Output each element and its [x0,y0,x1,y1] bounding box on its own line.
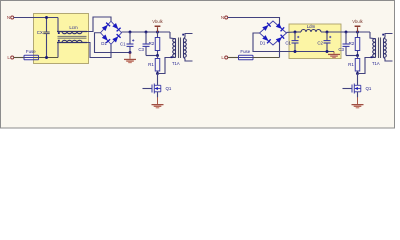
choke left polarity dot top [58,32,60,34]
power Vbulk left [157,27,159,32]
svg-text:L: L [221,55,224,60]
resistor R1 (right) [357,56,359,59]
svg-text:Fuse: Fuse [240,49,250,54]
svg-text:N: N [221,15,224,20]
capacitor C2 [326,32,328,41]
MOSFET Q1-left right lead [160,85,162,92]
wire N to filter [14,17,58,19]
wire bridge minus to filter bottom rail [253,33,334,52]
choke left core [58,35,87,37]
MOSFET Q1-right gate wire [343,88,352,90]
choke left polarity dot bottom [58,40,60,42]
diode D1-right upper-right [276,23,285,31]
wire choke to bridge AC2 [87,43,111,58]
diode D1-right upper-left [262,23,271,31]
svg-text:Lcm: Lcm [69,25,78,30]
wire Ldm to box edge [321,31,346,33]
svg-text:C3: C3 [138,47,144,52]
power Vbulk right [357,27,359,32]
ground GND-Q1-right [357,97,359,104]
wire C3 to node [146,55,158,57]
svg-text:R1: R1 [148,62,154,67]
fuse F1-right [239,57,254,59]
node drain (right) [356,72,359,75]
ground GND-filter-right [333,52,335,54]
svg-text:R2: R2 [349,41,355,46]
MOSFET Q1-right channel bar [353,84,355,94]
diode D1-right lower-right [276,35,285,43]
MOSFET Q1-left drain tap [154,84,161,86]
node C2 top [326,31,329,34]
transformer T1A-left primary winding [173,39,176,58]
wire L to fuse [14,57,24,59]
transformer T1A-right polarity dot secondary [382,34,384,36]
node C1 top (right) [294,31,297,34]
capacitor C3 (right) [345,32,347,44]
wire bridge plus to filter [287,31,296,33]
Vbulk rail (right) [346,31,370,33]
node snubber [156,54,159,57]
fuse F1-left [24,57,39,59]
wire source down [157,92,159,98]
wire choke to bridge AC1 [87,17,111,32]
transformer T1A-right primary winding [373,39,376,58]
node C1 top [129,31,132,34]
svg-text:N: N [7,15,10,20]
MOSFET Q1-left channel bar [153,84,155,94]
MOSFET Q1-left gate wire [143,88,152,90]
svg-text:T1A: T1A [372,61,380,66]
node C1 bottom [129,51,132,54]
capacitor C1 (right) [294,32,296,41]
MOSFET Q1-right source tap [354,91,361,93]
resistor R2 (right) [357,32,359,38]
transformer T1A-left secondary bottom pin wire [184,57,193,61]
MOSFET Q1-right drain tap [354,84,361,86]
svg-text:C1: C1 [285,40,291,45]
svg-text:R1: R1 [348,62,354,67]
wire node to transformer primary [158,58,176,74]
schematic sheet [0,0,400,146]
svg-text:Vbulk: Vbulk [352,19,363,24]
transformer T1A-right core [378,38,380,59]
capacitor CX [46,18,48,32]
node CX bottom [45,56,48,59]
MOSFET Q1-right right lead [360,85,362,92]
transformer T1A-left primary pin wire [170,32,176,39]
svg-text:Ldm: Ldm [307,24,316,29]
wire N to bridge [228,18,280,27]
svg-text:Q1: Q1 [166,86,172,91]
wire bridge minus to rail [95,33,131,53]
svg-text:T1A: T1A [172,61,180,66]
pi filter box (right) [289,24,341,59]
wire fuse to bridge AC2 [253,57,280,59]
resistor R2 [157,32,159,38]
svg-text:D1: D1 [260,41,266,46]
wire C3 to node (right) [346,55,358,57]
transformer T1A-right secondary top pin wire [384,34,393,39]
MOSFET Q1-right gate bar [351,85,353,93]
MOSFET Q1-left body arrow [155,88,161,90]
svg-text:L: L [7,55,10,60]
diode D1-left lower-right [112,34,120,43]
ground GND-C1-left [129,53,131,59]
svg-text:Q1: Q1 [366,86,372,91]
transformer T1A-right secondary bottom pin wire [384,57,393,61]
svg-text:CX: CX [37,30,43,35]
resistor R1 [157,56,159,59]
EMI filter box (left) [34,14,89,64]
choke left bottom winding [57,40,87,42]
node R2 top [156,31,159,34]
inductor Ldm [301,30,321,33]
MOSFET Q1-right body arrow [355,88,361,90]
node C3 top [145,31,148,34]
svg-text:Vbulk: Vbulk [152,19,163,24]
wire source down (right) [357,92,359,98]
svg-text:C2: C2 [317,40,323,45]
transformer T1A-right secondary winding [384,39,387,58]
node C1 bottom (right) [294,50,297,53]
diode D1-left lower-left [102,34,110,43]
transformer T1A-right polarity dot primary [371,56,373,58]
common-mode choke Lcm (left) top winding [57,32,87,34]
wire bridge plus / Vbulk rail [122,31,171,33]
node C3 top (right) [345,31,348,34]
node CX top [45,16,48,19]
ground GND-Q1-left [157,97,159,104]
svg-text:C3: C3 [338,47,344,52]
node R2 top (right) [356,31,359,34]
wire node to MOSFET drain [157,74,159,86]
bridge rectifier D1-left [101,21,122,44]
svg-text:D1: D1 [101,41,107,46]
svg-text:Fuse: Fuse [26,49,36,54]
wire down to choke top [57,18,59,32]
transformer T1A-left polarity dot primary [171,56,173,58]
wire fuse to choke [39,57,59,59]
bridge rectifier D1-right [260,21,287,45]
capacitor C3 [145,32,147,44]
MOSFET Q1-left gate bar [151,85,153,93]
svg-text:C1: C1 [120,42,126,47]
node drain [156,72,159,75]
wire L to fuse [228,57,239,59]
node C2 bottom [326,50,329,53]
diode D1-right lower-left [262,35,271,43]
diode D1-left upper-right [112,23,120,32]
svg-text:R2: R2 [149,41,155,46]
capacitor C1 [129,32,131,44]
transformer T1A-right primary pin wire [370,32,376,39]
wire node to MOSFET drain (right) [357,74,359,86]
transformer T1A-left secondary winding [184,39,187,58]
wire node to transformer primary (right) [358,58,376,74]
node snubber (right) [356,54,359,57]
MOSFET Q1-left source tap [154,91,161,93]
transformer T1A-left secondary top pin wire [184,34,193,39]
diode D1-left upper-left [102,23,110,32]
transformer T1A-left polarity dot secondary [182,34,184,36]
wire up to choke bottom [57,43,59,58]
transformer T1A-left core [178,38,180,59]
